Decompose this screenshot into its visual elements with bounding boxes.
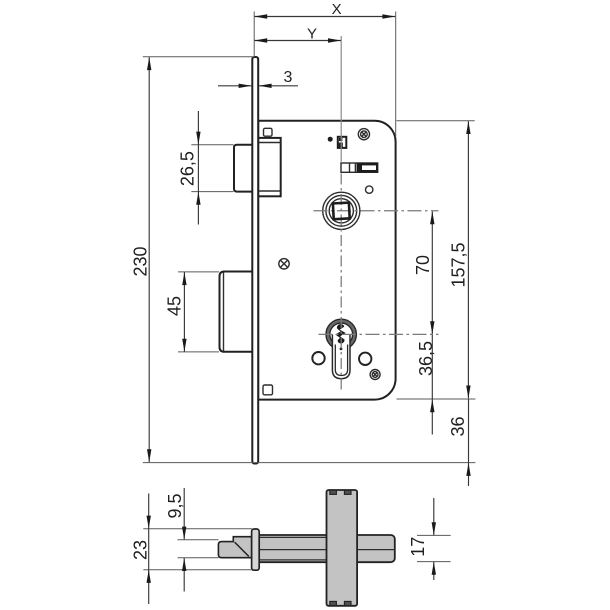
small square hole bottom-left (263, 385, 273, 395)
auxiliary slider (341, 163, 378, 173)
lock case body (258, 121, 395, 400)
dimension 157,5 (449, 121, 471, 399)
small rivet dot (328, 137, 333, 142)
svg-text:Y: Y (307, 26, 317, 43)
latch bolt head (234, 145, 253, 192)
key glyph dot (340, 347, 343, 350)
dimension 230 (131, 57, 476, 463)
follower horizontal centerline (314, 210, 439, 212)
dimension 9,5 (165, 488, 219, 592)
cylinder horizontal centerline (319, 333, 439, 335)
svg-text:36,5: 36,5 (416, 341, 436, 376)
dimension 3 (218, 69, 298, 88)
adjustment square on centerline (338, 137, 347, 148)
svg-text:26,5: 26,5 (178, 151, 198, 186)
dimension Y (254, 26, 341, 43)
cylinder side hole left (312, 352, 324, 364)
screw mid-left (279, 259, 289, 269)
svg-text:17: 17 (408, 537, 428, 557)
follower hub (plan) (327, 490, 358, 606)
faceplate (front) (252, 57, 258, 464)
extension line right of X (395, 12, 397, 138)
screw bottom-right of cylinder (370, 370, 380, 380)
svg-text:230: 230 (131, 246, 151, 276)
svg-text:X: X (332, 1, 342, 18)
dimension 23 (131, 494, 253, 605)
dimension 36 (448, 399, 471, 486)
latch bolt (plan) (218, 537, 259, 558)
svg-text:45: 45 (165, 296, 185, 316)
extension line left of X/Y (253, 12, 255, 57)
screw U1 top-right (358, 129, 369, 140)
svg-text:36: 36 (448, 416, 468, 436)
cylinder side hole right (359, 353, 371, 365)
cylinder ring (326, 319, 356, 349)
svg-text:3: 3 (284, 69, 293, 86)
dimension 45 (165, 272, 220, 352)
key profile glyph (335, 324, 345, 344)
dimension 26,5 (178, 111, 234, 225)
dimension 70 (413, 211, 434, 334)
vertical centerline solid upper (340, 36, 342, 162)
dimension 17 (408, 498, 451, 580)
dimension 36,5 (416, 334, 436, 434)
cylinder slot inner line (335, 345, 347, 376)
svg-text:9,5: 9,5 (165, 493, 185, 518)
small square hole top-left (264, 128, 273, 136)
vertical centerline dash-dot (340, 174, 342, 392)
small circle below slider (366, 186, 373, 193)
faceplate (plan) (252, 529, 260, 570)
cylinder slot (332, 334, 350, 378)
svg-text:23: 23 (131, 540, 151, 560)
svg-text:157,5: 157,5 (449, 242, 469, 287)
extension case bottom right (397, 398, 476, 400)
follower square (333, 203, 350, 220)
latch tail guide (258, 138, 281, 196)
dimension X (254, 1, 395, 19)
svg-text:70: 70 (413, 255, 433, 275)
deadbolt head (220, 272, 253, 352)
follower rings (323, 192, 360, 229)
lock case (plan) (259, 535, 395, 562)
extension case top right (397, 120, 475, 122)
